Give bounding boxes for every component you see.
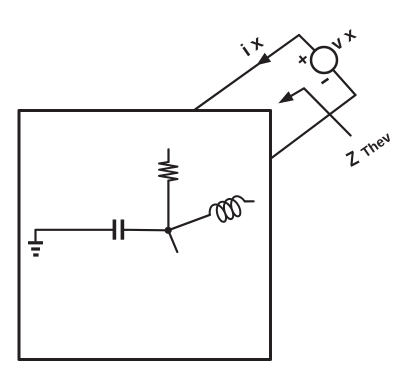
network box	[19, 111, 271, 360]
inductor right lead	[245, 200, 254, 202]
inductor L (coil)	[210, 196, 245, 222]
wire ground to capacitor	[36, 229, 113, 231]
wire V1 to source circle	[299, 35, 315, 51]
svg-text:Thev: Thev	[358, 128, 394, 160]
node junction	[165, 227, 172, 234]
wire V2 to box right edge	[271, 95, 356, 159]
minus sign of source	[322, 79, 329, 84]
wire capacitor to node	[124, 229, 168, 232]
wire circle to vertex V2	[333, 70, 356, 95]
source circle vx	[311, 47, 337, 73]
wire node to resistor	[167, 181, 169, 231]
ground	[28, 230, 43, 255]
wire ix : box top edge to vertex V1	[195, 35, 299, 109]
resistor R (zigzag)	[159, 162, 178, 181]
wire node to inductor	[168, 215, 210, 231]
Z_Thev pointer line	[282, 88, 351, 135]
arrowhead on ix wire	[257, 53, 272, 66]
arrowhead on Z_Thev pointer	[278, 91, 294, 103]
capacitor C	[114, 220, 122, 240]
resistor top lead	[167, 149, 169, 162]
stub below node	[168, 230, 177, 252]
